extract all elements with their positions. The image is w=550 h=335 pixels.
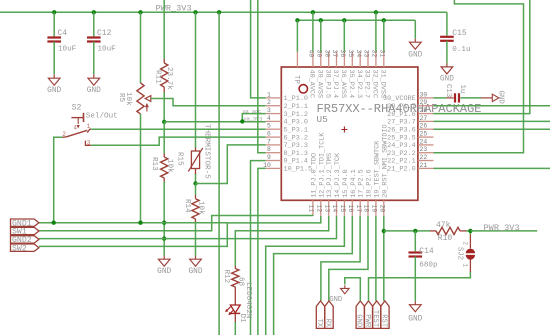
svg-text:12_PJ.1_TDI_TCLK: 12_PJ.1_TDI_TCLK [318,132,326,198]
wire S2 pin3 to IC pin6 [91,137,266,145]
IC pin 31 stub [383,52,385,68]
svg-text:15: 15 [339,205,346,213]
wire C15 to GND [446,41,448,64]
net flag TX [316,301,324,329]
ground GND (R13) [163,256,165,260]
svg-text:R5: R5 [117,93,125,103]
svg-text:12: 12 [315,205,322,213]
svg-text:29: 29 [420,99,428,106]
IC pin 10 stub [266,167,282,169]
junction R11/R13/pin4 net [162,120,166,124]
resistor R10 [436,227,460,234]
IC pin 23 stub [418,152,434,154]
svg-text:23: 23 [420,146,428,153]
junction rail2/TP [295,18,299,22]
svg-text:28_P1.6: 28_P1.6 [387,111,416,119]
svg-text:C13: C13 [444,84,452,97]
wire junction to R13 [163,122,165,154]
svg-text:35: 35 [347,50,354,58]
IC pin 18 stub [367,200,369,216]
IC origin cross [341,127,347,133]
net flag SW2 [11,244,39,251]
svg-text:22_P2.1: 22_P2.1 [387,158,416,166]
junction pin3/pin4 nets [240,119,244,123]
svg-text:25_P3.5: 25_P3.5 [387,134,416,142]
svg-text:15_P4.0: 15_P4.0 [342,169,350,198]
svg-text:13: 13 [323,205,330,213]
IC pin 14 stub [336,200,338,216]
svg-text:R15: R15 [176,152,184,166]
svg-text:R12: R12 [222,270,230,284]
svg-text:11_PJ.0_TDO: 11_PJ.0_TDO [310,153,318,198]
svg-text:1: 1 [462,264,469,268]
wire top edge to IC pin1 [251,0,266,98]
svg-text:10_P1.5: 10_P1.5 [284,166,313,174]
wire pin14 to GND2 flag [39,216,337,239]
svg-text:22: 22 [420,154,428,161]
capacitor C12 [87,36,101,38]
IC pin 33 stub [367,52,369,68]
wire rail to C14 [414,231,416,251]
svg-text:2: 2 [462,242,469,246]
svg-text:11: 11 [308,205,315,213]
IC pin 6 stub [266,136,282,138]
switch S2 [71,117,83,119]
wire rail2 to pin39 AVSS [320,20,322,51]
wire pin20 to RST flag [383,216,385,301]
junction rail/C12 [92,10,96,14]
wire top edge to IC pin8 [258,0,266,153]
svg-text:35_P2.4: 35_P2.4 [347,70,355,99]
svg-text:TP: TP [292,75,300,84]
svg-text:GND: GND [408,316,422,324]
IC pin 32 stub [375,52,377,68]
svg-text:GND: GND [87,87,101,95]
wire top edge down (R11 net) [163,0,165,59]
wire pin26 to right edge [434,128,550,130]
svg-text:27: 27 [420,115,428,122]
svg-text:6: 6 [267,131,271,138]
IC pin 8 stub [266,152,282,154]
svg-text:R14: R14 [183,199,191,213]
svg-text:10uF: 10uF [58,46,77,54]
IC pin 20 stub [383,200,385,216]
wire pin16 down to bottom edge [274,216,353,335]
IC pin 19 stub [375,200,377,216]
svg-text:10: 10 [263,162,271,169]
svg-text:1: 1 [87,123,91,130]
wire junction to R14 [195,184,197,196]
capacitor C4 [47,36,61,38]
svg-text:33_P2.7: 33_P2.7 [363,70,371,99]
svg-text:4: 4 [267,115,271,122]
ground GND (C4) [53,75,55,79]
svg-text:25: 25 [420,131,428,138]
svg-text:4: 4 [73,125,77,132]
svg-text:C4: C4 [58,29,68,38]
svg-text:5_P3.1: 5_P3.1 [284,126,308,134]
wire rail to C12 [93,12,95,36]
wire GND1 flag to junctions [39,222,227,224]
svg-text:38: 38 [323,50,330,58]
IC pin 21 stub [418,167,434,169]
IC pin 1 stub [266,97,282,99]
junction R15/R14/pin7 net [193,181,197,185]
ground GND (C14) [414,301,416,305]
svg-text:26_P3.6: 26_P3.6 [387,126,416,134]
junction rail2/DVSS31 [382,18,386,22]
svg-text:1u: 1u [458,85,466,94]
junction rail/DVCC [374,10,378,14]
svg-text:Sel/Out: Sel/Out [86,112,118,120]
wire IC pin10 down to bottom edge [258,168,266,335]
svg-text:U5: U5 [317,114,329,125]
svg-text:7: 7 [267,138,271,145]
junction rail2/AVSS39 [319,18,323,22]
svg-text:40_AVCC: 40_AVCC [308,70,316,99]
wire junction to IC pin4 [164,121,266,123]
svg-text:24_P3.4: 24_P3.4 [387,142,416,150]
svg-text:34: 34 [355,50,362,58]
wire rail2 drop to GND [414,20,416,38]
svg-text:30_VCORE: 30_VCORE [383,95,416,103]
IC pin 12 stub [320,200,322,216]
wire to PWR_3V3 stub [470,230,537,232]
IC pin 11 stub [312,200,314,216]
resistor R13 [163,154,165,158]
svg-text:TX: TX [315,319,323,328]
svg-text:37: 37 [331,50,338,58]
svg-text:23.7k: 23.7k [165,67,173,90]
ground GND (right-pointing, C13) [481,97,492,99]
wire PWR flag to SJ2 [369,272,471,301]
ground GND (C15) [446,63,448,67]
junction rail/AVCC [311,10,315,14]
IC pin 25 stub [418,136,434,138]
junction rail/R15 [193,10,197,14]
wire R13 bottom to GND [163,182,165,256]
svg-text:18: 18 [363,205,370,213]
svg-text:10uF: 10uF [98,46,117,54]
wire ua_adc stub to IC pin3 [242,114,265,122]
svg-text:GND: GND [157,268,171,276]
junction rail/bus [217,10,221,14]
net flag GND2 [11,236,39,243]
wire rail1 to pin32 DVCC [375,12,377,51]
svg-text:20_RST_NMI_SBWTDIO: 20_RST_NMI_SBWTDIO [381,124,389,197]
IC U5 MSP430 FR57XX body [281,67,418,200]
wire pin15 down to bottom edge [266,216,345,335]
svg-text:23_P2.2: 23_P2.2 [387,150,416,158]
svg-text:PWR_3V3: PWR_3V3 [484,223,520,233]
IC pin 37 stub [336,52,338,68]
wire R10 to SJ2 junction [467,230,471,232]
test point TP circle [299,85,307,93]
wire IC pin9 down to bottom edge [251,161,266,335]
wire pin30 to C13 [434,97,447,99]
ground GND (R14) [195,256,197,260]
ground GND (C12) [93,75,95,79]
thermistor R15 [195,148,197,152]
wire R5 wiper to IC pin2 [151,99,266,106]
svg-text:C14: C14 [419,247,434,256]
junction SJ2/rail [468,229,472,233]
net flag GND [356,301,364,329]
IC pin 7 stub [266,144,282,146]
IC pin 15 stub [343,200,345,216]
svg-text:19_TEST_SBWTCK: 19_TEST_SBWTCK [373,140,381,198]
svg-text:39_AVSS: 39_AVSS [315,70,323,99]
svg-text:36_AVSS: 36_AVSS [339,70,347,99]
wire GND flag up/left to ground [345,278,361,301]
svg-text:8_P1.3: 8_P1.3 [284,150,308,158]
wire RST net rail [384,230,430,232]
svg-text:C12: C12 [97,29,112,38]
svg-text:GND: GND [440,76,454,84]
wire rail1 end down to C15 [446,12,448,35]
svg-text:16: 16 [347,205,354,213]
svg-text:21_P2.0: 21_P2.0 [387,166,416,174]
svg-text:PWR: PWR [363,314,371,328]
svg-text:4_P3.0: 4_P3.0 [284,119,308,127]
svg-text:6_P3.2: 6_P3.2 [284,134,308,142]
ground GND (flags) [344,285,346,288]
ground GND (top right) [414,39,416,43]
resistor R11 [163,59,165,63]
wire rail to R5 [140,12,142,83]
net flag SW1 [11,227,39,234]
svg-text:13_PJ.2_TMS: 13_PJ.2_TMS [326,153,334,198]
wire C4 to GND [53,42,55,75]
junction GND1/R5 [138,221,142,225]
wire D1 cathode to bottom edge [234,322,236,335]
wire C13 to GND arrow [460,97,481,99]
svg-text:20: 20 [378,205,385,213]
svg-text:PWR_3V3: PWR_3V3 [156,4,192,14]
IC pin 35 stub [351,52,353,68]
IC pin 24 stub [418,144,434,146]
net flag RST [381,301,389,329]
svg-text:32_DVCC: 32_DVCC [371,70,379,99]
wire pin18 to RX flag [329,216,368,301]
svg-text:24: 24 [420,138,428,145]
IC pin 3 stub [266,113,282,115]
junction C14/rail [413,229,417,233]
svg-text:3: 3 [267,107,271,114]
wire pin17 to TX flag [321,216,360,301]
junction RST/R10 rail [382,229,386,233]
LED D1 [234,287,236,305]
svg-text:5: 5 [267,123,271,130]
svg-text:47k: 47k [436,221,451,230]
svg-text:SJ2: SJ2 [455,247,463,260]
junction R13/GND2 wire [162,236,166,240]
svg-text:10k: 10k [196,201,204,215]
svg-text:30: 30 [420,91,428,98]
wire C12 to GND [93,42,95,75]
svg-text:14_PJ.3_TCK: 14_PJ.3_TCK [334,152,342,198]
resistor R14 [195,195,197,199]
svg-text:3: 3 [87,139,91,146]
svg-text:GND: GND [497,91,505,105]
svg-text:7_P3.3: 7_P3.3 [284,142,308,150]
svg-text:RX: RX [323,319,331,328]
svg-text:R13: R13 [150,157,158,171]
svg-text:TEST: TEST [371,310,379,328]
svg-text:S2: S2 [72,103,82,112]
net flag GND1 [11,219,39,226]
svg-text:33: 33 [363,50,370,58]
capacitor C14 [409,251,423,253]
IC pin 2 stub [266,105,282,107]
svg-text:SW2: SW2 [12,244,27,253]
svg-text:10k: 10k [124,92,132,106]
svg-text:9_P1.4: 9_P1.4 [284,158,308,166]
svg-text:ua_3v3: ua_3v3 [244,117,263,123]
svg-text:THERMISTOR-5: THERMISTOR-5 [203,124,211,179]
net flag TEST [373,301,381,329]
svg-text:17: 17 [355,205,362,213]
net flag PWR [364,301,372,329]
svg-text:68: 68 [236,277,244,287]
wire SJ2 to rail [469,231,471,235]
wire S2 pin2 down to GND1 net [54,137,63,222]
wire AVSS/DVSS rail to GND [297,19,415,21]
wire R14 bottom to GND [195,223,197,256]
wire pin11 to SW1 flag [39,216,313,231]
svg-text:37_PJ.4: 37_PJ.4 [331,70,339,99]
wire pin28 up to top edge [434,0,530,114]
svg-text:21: 21 [420,162,428,169]
svg-text:18_P2.6: 18_P2.6 [366,169,374,198]
IC pin 28 stub [418,113,434,115]
svg-text:2: 2 [267,99,271,106]
svg-text:GND: GND [47,87,61,95]
IC pin 4 stub [266,120,282,122]
resistor R12 [234,266,236,269]
R5 wiper arrow [145,96,151,102]
wire R5 bottom to GND1 net [140,114,142,223]
svg-text:17_P2.5: 17_P2.5 [358,169,366,198]
svg-text:1_P1.0: 1_P1.0 [284,95,308,103]
IC pin 26 stub [418,128,434,130]
wire pin23 loop to top edge [434,0,524,153]
junction GND1/S2 [52,221,56,225]
IC pin 13 stub [328,200,330,216]
IC pin 9 stub [266,160,282,162]
IC pin 36 stub [343,52,345,68]
IC pin 27 stub [418,120,434,122]
IC pin 16 stub [351,200,353,216]
wire thermistor junction to IC pin7 [196,145,266,184]
wire 3V3 vertical bus to bottom [218,12,220,335]
wire C14 to GND [414,257,416,302]
svg-text:16_P4.1: 16_P4.1 [350,169,358,198]
junction R13/GND1 wire [162,221,166,225]
svg-text:R10: R10 [438,234,453,243]
wire pin29 to right edge [434,105,550,107]
svg-text:26: 26 [420,123,428,130]
wire PWR_3V3 rail [0,11,447,13]
svg-text:9: 9 [267,154,271,161]
svg-text:GND: GND [408,52,422,60]
TP pin stub [296,52,298,67]
wire rail1 to pin40 AVCC [312,12,314,51]
IC pin 34 stub [359,52,361,68]
wire pin13 to R12/LED [235,216,328,266]
svg-text:R11: R11 [153,70,161,84]
wire rail to R15 [195,12,197,147]
svg-text:8: 8 [267,146,271,153]
junction rail2/AVSS36 [342,18,346,22]
svg-text:3_P1.2: 3_P1.2 [284,111,308,119]
IC pin 40 stub [312,52,314,68]
IC pin 5 stub [266,128,282,130]
svg-text:14: 14 [331,205,338,213]
wire pin12 to GND1/SW2 nets [39,216,321,247]
wire rail2 to pin36 AVSS [343,20,345,51]
wire pin19 to TEST flag [375,216,377,301]
IC pin 17 stub [359,200,361,216]
svg-text:10k: 10k [165,159,173,173]
net flag RX [325,301,333,329]
svg-text:19: 19 [371,205,378,213]
wire pin27 to right edge [434,120,550,122]
junction rail/C4 [52,10,56,14]
capacitor C13 [447,97,454,99]
IC pin 30 stub [418,97,434,99]
svg-text:GND: GND [329,296,342,304]
svg-text:29_P1.7: 29_P1.7 [387,103,416,111]
svg-text:1: 1 [267,91,271,98]
svg-text:2: 2 [62,131,66,138]
svg-text:31_DVSS: 31_DVSS [378,70,386,99]
IC pin 29 stub [418,105,434,107]
IC pin 39 stub [320,52,322,68]
capacitor C15 [440,36,454,38]
wire pin21 to right edge [434,167,550,169]
wire rail2 to TP pin [296,20,298,52]
svg-text:38_PJ.5: 38_PJ.5 [323,70,331,99]
IC pin 38 stub [328,52,330,68]
svg-text:680p: 680p [419,262,438,270]
svg-text:0.1u: 0.1u [452,46,470,54]
svg-text:LED0402N: LED0402N [244,282,252,318]
solder jumper SJ2 [469,259,471,272]
wire R11 to junction [163,92,165,122]
svg-text:28: 28 [420,107,428,114]
svg-text:GND: GND [188,268,202,276]
junction rail/R5 [138,10,142,14]
svg-text:GND: GND [355,314,363,327]
svg-text:34_P2.3: 34_P2.3 [355,70,363,99]
IC pin 22 stub [418,160,434,162]
svg-text:2_P1.1: 2_P1.1 [284,103,308,111]
wire rail to C4 [53,12,55,36]
svg-text:27_P3.7: 27_P3.7 [387,119,416,127]
svg-text:C15: C15 [452,29,467,38]
wire S2 pin1 to IC pin5 [91,128,266,130]
wire R15 to junction [195,174,197,184]
potentiometer R5 [137,83,144,114]
wire rail2 to pin31 DVSS [383,20,385,51]
svg-text:RST: RST [379,314,387,328]
